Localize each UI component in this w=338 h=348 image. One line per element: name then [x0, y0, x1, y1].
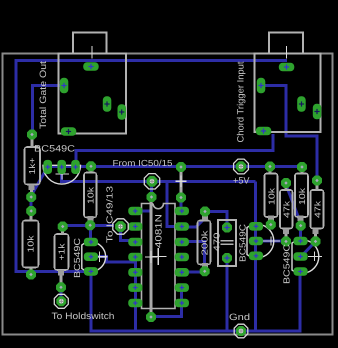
svg-text:Chord Trigger Input: Chord Trigger Input — [236, 61, 246, 142]
resistor R 10k-A top pad — [265, 162, 275, 172]
svg-text:10k: 10k — [85, 186, 95, 204]
resistor R 10k-2 top pad — [86, 161, 96, 171]
transistor Q2 pad 2 — [84, 252, 98, 261]
jumper JP2 bottom pad — [176, 193, 186, 203]
jumper JP1 top pad — [147, 192, 157, 202]
svg-text:To Holdswitch: To Holdswitch — [52, 311, 115, 321]
jack J2 pad switch2 — [313, 104, 322, 120]
resistor R 10k-C bottom pad — [296, 221, 306, 231]
transistor Q4 origin cross — [308, 252, 322, 262]
IC U1 pin 4 pad — [128, 253, 142, 262]
resistor R 47k-B top pad — [281, 178, 291, 188]
resistor R 1k+ body — [25, 147, 41, 185]
svg-text:10k: 10k — [26, 235, 36, 253]
resistor R 10k-1 leads — [30, 214, 33, 221]
svg-text:200k: 200k — [199, 230, 209, 256]
wire Q3 base to R47k-B bottom — [262, 240, 286, 243]
jumper JP2 origin cross — [176, 176, 187, 188]
resistor R 1k+ top pad — [27, 130, 37, 140]
svg-text:47k: 47k — [312, 200, 322, 218]
svg-text:BC549C: BC549C — [238, 223, 248, 262]
IC U1 pin 3 pad — [128, 238, 142, 247]
wire Q1 emitter up and across to jack2 tip area — [76, 134, 273, 167]
capacitor C 470 body — [218, 220, 236, 266]
transistor Q1 origin cross — [56, 169, 70, 180]
resistor R 1k+ bottom pad — [26, 192, 36, 202]
resistor R +1k top pad — [58, 222, 68, 232]
transistor Q3 pad 3 — [249, 252, 263, 261]
wire resistor chain stub — [30, 197, 33, 211]
wire Q1 base to From-pad and across to Q3 column — [62, 169, 256, 181]
wire 10k-2 bottom to Q2 collector — [89, 225, 92, 242]
svg-text:To IC49/13: To IC49/13 — [105, 186, 115, 243]
resistor R 47k-B leads — [285, 187, 288, 191]
transistor Q4 pad 1 — [293, 237, 307, 246]
IC U1 pin 9 pad — [175, 283, 189, 292]
jack J2 center pin mark — [286, 46, 288, 59]
wire IC pin13 region to 200k top — [182, 212, 205, 227]
wire +1k bottom to holdswitch pad — [60, 287, 63, 301]
jack J1 body — [59, 54, 127, 134]
resistor R +1k leads — [61, 230, 64, 234]
jack J1 pad switch1 — [103, 96, 112, 112]
svg-text:10k: 10k — [266, 187, 276, 205]
transistor Q1 outline — [43, 165, 81, 184]
node +5V pad — [236, 161, 246, 171]
jack J1 center pin mark — [91, 46, 93, 59]
svg-text:+1k: +1k — [57, 243, 67, 261]
wire jumper2 pad to IC pin14 — [180, 198, 183, 212]
transistor Q3 origin cross — [262, 237, 280, 246]
wire Q1 collector diagonal to pad — [32, 169, 47, 195]
resistor R 10k-2 body — [84, 173, 97, 218]
IC U1 pin 5 pad — [128, 268, 142, 277]
resistor R +1k bottom pad — [56, 282, 66, 292]
wire IC pin10 to 200k bottom — [182, 270, 205, 273]
svg-text:Total Gate Out: Total Gate Out — [38, 61, 48, 129]
jack J2 pad frame — [256, 127, 271, 136]
transistor Q1 pad 1 — [43, 160, 52, 174]
resistor R 1k+ leads — [31, 139, 34, 148]
svg-text:BC549C: BC549C — [72, 237, 82, 278]
jack J2 body — [255, 54, 321, 133]
svg-text:BC549C: BC549C — [34, 144, 75, 154]
wire 200k top to capacitor top — [205, 212, 227, 228]
resistor R 10k-A body — [265, 174, 278, 218]
jumper JP2 lead — [180, 170, 183, 195]
IC U1 pin 11 pad — [175, 253, 189, 262]
svg-text:470: 470 — [212, 232, 222, 251]
IC U1 pin 1 pad — [128, 207, 142, 216]
IC U1 pin 6 pad — [128, 283, 142, 292]
resistor R 200k top pad — [200, 207, 210, 217]
IC U1 pin 12 pad — [175, 238, 189, 247]
wire top bus / left bus / ground-left run — [16, 61, 287, 272]
wire branch down to IC pin13 — [167, 181, 181, 226]
transistor Q3 pad 2 — [249, 237, 263, 246]
resistor R +1k body — [55, 234, 69, 270]
transistor Q1 pad 2 — [57, 160, 66, 174]
resistor R 10k-1 body — [23, 221, 39, 268]
wire R47k-D bottom diagonal to Q4 base — [302, 244, 314, 256]
svg-text:From IC50/15: From IC50/15 — [113, 158, 173, 168]
wire IC pin12 to 200k bottom under silk — [182, 242, 205, 272]
IC U1 pin 14 pad — [175, 207, 189, 216]
resistor R 200k bottom pad — [200, 266, 210, 276]
jack J2 pad tip — [279, 63, 295, 72]
wire Q3 column vertical to bottom bus — [254, 181, 257, 331]
svg-text:47k: 47k — [281, 200, 291, 218]
wire To-pad down to IC pin — [121, 228, 136, 242]
IC U1 pin 13 pad — [175, 222, 189, 231]
IC U1 pin 10 pad — [175, 268, 189, 277]
jack J1 pad frame — [61, 127, 77, 136]
wire R10k-C bottom to Q4 collector — [299, 226, 302, 241]
transistor Q2 pad 1 — [84, 238, 98, 247]
resistor R 10k-C leads — [301, 170, 304, 174]
jack J2 pad switch1 — [297, 96, 306, 112]
IC U1 pin 2 pad — [128, 222, 142, 231]
transistor Q4 outline — [292, 240, 319, 274]
transistor Q3 outline — [247, 224, 274, 258]
transistor Q2 pad 3 — [84, 267, 98, 276]
node To Holdswitch pad — [56, 296, 66, 306]
capacitor C 470 top pad — [222, 223, 232, 233]
resistor R 10k-1 bottom pad — [26, 270, 36, 280]
resistor R 47k-D body — [311, 190, 324, 229]
capacitor C 470 bottom pad — [222, 253, 232, 263]
resistor R 47k-D top pad — [312, 176, 322, 186]
jumper JP2 top pad — [176, 162, 186, 172]
jumper JP1 lead over IC — [150, 200, 153, 312]
resistor R 10k-C top pad — [297, 162, 307, 172]
node Gnd pad — [236, 326, 246, 336]
jack J1 pad sleeve — [60, 78, 69, 94]
wire IC pin1 stub — [136, 210, 150, 213]
resistor R 10k-2 bottom pad — [85, 220, 95, 230]
wire IC pin9 down to jumper1 bottom pad — [151, 288, 182, 317]
transistor Q2 origin cross — [97, 252, 108, 263]
resistor R 47k-B bottom pad — [281, 236, 291, 246]
resistor R 10k-2 leads — [90, 170, 93, 173]
IC U1 4081N outline with notch — [142, 204, 176, 309]
jack J2 notch — [269, 33, 303, 54]
wire +5V rail — [46, 165, 302, 168]
transistor Q3 pad 1 — [249, 222, 263, 231]
resistor R 200k leads — [204, 215, 207, 221]
wire capacitor bottom to ground bus — [226, 258, 229, 331]
node From IC50/15 pad — [147, 176, 158, 187]
capacitor C 470 plates — [221, 240, 234, 242]
resistor R 200k body — [198, 221, 211, 265]
wire +1k top / 10k-2 bottom / To-pad run — [63, 224, 114, 227]
jack J1 pad tip — [83, 62, 99, 70]
wire jack2 sleeve to R47k-D top — [261, 86, 317, 181]
IC U1 pin 7 pad — [128, 299, 142, 308]
svg-text:1k+: 1k+ — [27, 158, 37, 175]
wire R47k-B top diagonal to R10k-C bottom — [286, 186, 300, 224]
jumper JP1 bottom pad — [146, 312, 156, 322]
svg-text:+5V: +5V — [233, 176, 250, 186]
wire Q2 base to IC left column to bottom bus — [91, 257, 136, 262]
resistor R 10k-A leads — [269, 170, 272, 174]
jack J2 pad sleeve — [257, 78, 266, 94]
IC U1 pin 8 pad — [175, 299, 189, 308]
resistor R 10k-A bottom pad — [266, 220, 276, 230]
resistor R 10k-C body — [295, 174, 308, 218]
transistor Q2 outline — [82, 242, 106, 272]
board outline — [3, 54, 333, 335]
IC U1 origin cross — [150, 248, 167, 265]
transistor Q4 pad 2 — [293, 252, 307, 261]
wire From-pad stub down to jumper1 top pad — [150, 181, 153, 197]
resistor R 47k-B body — [280, 190, 293, 229]
wire Q2 emitter down / bottom ground bus / up to Q4 — [91, 271, 300, 331]
transistor Q4 pad 3 — [293, 267, 307, 276]
node To IC49/13 pad — [115, 221, 126, 232]
svg-text:Gnd: Gnd — [229, 312, 250, 322]
resistor R 10k-1 top pad — [26, 206, 36, 216]
svg-text:BC549C: BC549C — [282, 243, 292, 284]
wire jack1 sleeve to R 1k+ top — [33, 86, 65, 135]
svg-text:4081N: 4081N — [154, 214, 164, 248]
svg-text:10k: 10k — [297, 187, 307, 205]
transistor Q1 pad 3 — [71, 160, 80, 174]
resistor R 47k-D bottom pad — [311, 236, 321, 246]
jack J1 pad switch2 — [118, 104, 127, 120]
jack J1 notch — [73, 33, 107, 54]
jumper JP1 origin cross — [145, 251, 157, 263]
resistor R 47k-D leads — [316, 185, 319, 191]
